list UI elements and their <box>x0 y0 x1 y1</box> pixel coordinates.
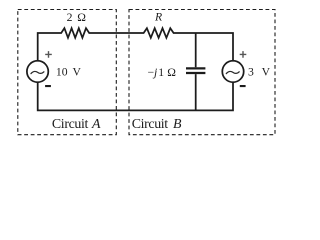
svg-text:2Ω: 2Ω <box>67 11 87 24</box>
svg-text:CircuitB: CircuitB <box>132 117 182 132</box>
svg-text:R: R <box>154 11 162 24</box>
svg-text:−j1Ω: −j1Ω <box>148 66 177 79</box>
svg-text:CircuitA: CircuitA <box>52 117 101 132</box>
